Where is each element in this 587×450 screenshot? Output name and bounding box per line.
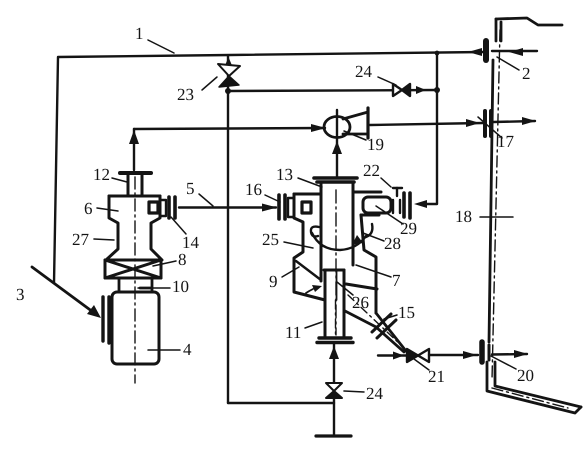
wire bottom drain line bbox=[333, 344, 335, 436]
flow arrow up into ejector bbox=[332, 141, 342, 154]
svg-text:5: 5 bbox=[186, 179, 195, 198]
flow arrow on line1 bbox=[468, 48, 482, 56]
internal flow arrow left bbox=[306, 285, 322, 293]
svg-text:17: 17 bbox=[497, 132, 515, 151]
drain pipe 15 walls bbox=[345, 311, 406, 352]
flange 2 bar bbox=[483, 41, 489, 60]
pipe 18 bottom diagonal outlet bbox=[487, 362, 581, 413]
svg-text:27: 27 bbox=[72, 230, 90, 249]
central cylinder walls bbox=[321, 184, 353, 281]
label 28 bbox=[363, 233, 401, 253]
coupling box 8 with X bbox=[105, 260, 161, 278]
wire riser to port29 bbox=[424, 53, 437, 204]
svg-text:1: 1 bbox=[135, 24, 144, 43]
valve 23 bbox=[218, 64, 240, 87]
bottom flange of cylinder 11 bbox=[317, 338, 353, 343]
node junction at valve23 bottom bbox=[225, 88, 231, 94]
flow arrow up on riser bbox=[129, 130, 139, 144]
pipe 18 centerline bbox=[492, 30, 568, 408]
label 12 bbox=[93, 165, 127, 184]
label 17 bbox=[478, 117, 515, 151]
label 29 bbox=[376, 206, 417, 238]
cylinder 4 bbox=[112, 292, 159, 364]
flow arrow before flange 17 bbox=[466, 119, 480, 127]
svg-text:26: 26 bbox=[352, 293, 369, 312]
central device top flange 13 bbox=[314, 178, 357, 182]
flow arrow before valve 21 bbox=[393, 352, 404, 360]
flow arrow on line 3 bbox=[87, 305, 101, 318]
svg-text:24: 24 bbox=[355, 62, 373, 81]
left device port hole square bbox=[149, 202, 158, 213]
flow arrow before flange 20 bbox=[463, 351, 477, 359]
inner cylinder centerline bbox=[335, 300, 337, 334]
label 24 bottom bbox=[344, 384, 384, 403]
wire line1 recirculation header bbox=[54, 52, 484, 283]
label 2 bbox=[497, 57, 531, 83]
ejector 19 cone and bar bbox=[343, 108, 368, 138]
label 10 bbox=[138, 277, 189, 296]
label 3 bbox=[16, 285, 25, 304]
internal cone line left bbox=[296, 261, 321, 280]
label 25 bbox=[262, 230, 313, 249]
left device flange 14 bars bbox=[169, 197, 175, 218]
wire line from riser to ejector bbox=[134, 128, 325, 129]
inner cylinder 11 walls bbox=[324, 270, 344, 336]
svg-text:18: 18 bbox=[455, 207, 472, 226]
flange 20 bar bbox=[479, 342, 485, 362]
label 13 bbox=[276, 165, 322, 187]
svg-text:2: 2 bbox=[522, 64, 531, 83]
svg-text:10: 10 bbox=[172, 277, 189, 296]
label 7 bbox=[356, 265, 401, 290]
svg-text:6: 6 bbox=[84, 199, 93, 218]
flow arrow up to line1 bbox=[224, 57, 233, 68]
left device: pipe 12 walls bbox=[128, 175, 142, 196]
right port small piece bbox=[393, 200, 400, 213]
label 20 bbox=[491, 356, 534, 385]
ejector 19 circle bbox=[324, 117, 350, 138]
central device body left outline 9 bbox=[294, 194, 325, 300]
svg-text:16: 16 bbox=[245, 180, 262, 199]
wire outlet after flange 17 bbox=[493, 121, 535, 122]
label 21 bbox=[414, 359, 445, 386]
label 9 bbox=[269, 267, 299, 291]
flange 20 second bar bbox=[488, 345, 491, 360]
flow arrow up into flange 11 bbox=[329, 346, 339, 359]
wire out of flange 20 bbox=[492, 353, 527, 356]
svg-text:23: 23 bbox=[177, 85, 194, 104]
flow arrow into port 29 bbox=[414, 200, 427, 208]
wire bypass line y90 bbox=[228, 90, 437, 91]
flow arrow after valve 24 bbox=[416, 86, 426, 94]
wire bottom connection from valve23 branch bbox=[228, 402, 334, 404]
cylinder 4 side flange bars bbox=[103, 297, 109, 343]
label 22 bbox=[363, 161, 391, 187]
svg-text:15: 15 bbox=[398, 303, 415, 322]
label 5 bbox=[186, 179, 213, 206]
svg-text:3: 3 bbox=[16, 285, 25, 304]
left device centerline bbox=[134, 177, 136, 383]
svg-text:8: 8 bbox=[178, 250, 187, 269]
flow arrow into ejector bbox=[311, 124, 326, 132]
central device left port fitting bbox=[288, 198, 294, 217]
wire ejector suction riser bbox=[336, 137, 338, 177]
label 8 bbox=[153, 250, 187, 269]
flow arrow out of 20 bbox=[514, 350, 528, 358]
svg-text:11: 11 bbox=[285, 323, 301, 342]
label 27 bbox=[72, 230, 114, 249]
svg-text:21: 21 bbox=[428, 367, 445, 386]
wire valve23 branch vertical bbox=[227, 56, 229, 403]
right port stub 22 bbox=[393, 188, 402, 196]
wire ejector outlet to flange 17 bbox=[370, 123, 483, 125]
flow arrow on line 5 bbox=[262, 204, 277, 212]
wire suction line 3 bbox=[32, 267, 93, 312]
flow arrow out of 17 bbox=[522, 117, 536, 125]
label 15 bbox=[384, 303, 415, 322]
left device body 6/27 outline bbox=[106, 196, 162, 260]
label 19 bbox=[344, 131, 384, 154]
svg-text:9: 9 bbox=[269, 272, 278, 291]
central device centerline bbox=[335, 190, 337, 335]
node junction bypass/riser bbox=[434, 87, 440, 93]
svg-text:20: 20 bbox=[517, 366, 534, 385]
ejector stub above bbox=[336, 110, 338, 137]
svg-text:13: 13 bbox=[276, 165, 293, 184]
wire riser from left device with arrow bbox=[133, 129, 135, 170]
wire into valve 21 bbox=[378, 354, 407, 356]
drain end bar bbox=[316, 434, 351, 437]
svg-text:29: 29 bbox=[400, 219, 417, 238]
svg-text:28: 28 bbox=[384, 234, 401, 253]
internal flow arrow right dark bbox=[352, 235, 363, 245]
left device: flange 12 bbox=[120, 171, 151, 175]
wire entry above flange 2 bbox=[492, 50, 537, 52]
inner cylinder 11 inner line bbox=[336, 271, 338, 300]
central device body right outline 7 bbox=[346, 192, 381, 313]
svg-text:19: 19 bbox=[367, 135, 384, 154]
wire valve21 to flange 20 bbox=[429, 354, 478, 356]
pipe 15 flange slashes bbox=[372, 314, 396, 338]
water curtain arc 25 bbox=[311, 224, 373, 250]
wire line 5 bbox=[179, 206, 276, 208]
valve 24 top bbox=[393, 84, 410, 96]
label 16 bbox=[245, 180, 280, 202]
label 23 bbox=[177, 77, 217, 104]
left device port 14 fitting bbox=[160, 200, 166, 216]
label 18 bbox=[455, 207, 513, 226]
central device left port hole square bbox=[302, 202, 311, 213]
svg-text:25: 25 bbox=[262, 230, 279, 249]
svg-text:22: 22 bbox=[363, 161, 380, 180]
label 11 bbox=[285, 322, 322, 342]
label 4 bbox=[148, 340, 192, 359]
pipe 15 centerline bbox=[348, 295, 403, 347]
svg-text:7: 7 bbox=[392, 271, 401, 290]
central device flange 16 bars bbox=[279, 195, 285, 219]
flow arrow into flange 2 bbox=[509, 48, 523, 56]
main water pipe 18 wall bbox=[489, 18, 562, 342]
label 1 bbox=[135, 24, 174, 53]
flange 17 bars bbox=[485, 111, 491, 136]
flange 29 bars bbox=[404, 193, 410, 218]
svg-text:12: 12 bbox=[93, 165, 110, 184]
svg-text:4: 4 bbox=[183, 340, 192, 359]
label 14 bbox=[171, 217, 200, 252]
svg-text:24: 24 bbox=[366, 384, 384, 403]
valve 24 bottom bbox=[326, 383, 342, 398]
label 24 top bbox=[355, 62, 396, 85]
node junction line1/riser bbox=[435, 51, 440, 56]
right port fitting 22/29 bbox=[363, 197, 391, 213]
valve 21 bbox=[407, 349, 429, 362]
label 26 bbox=[337, 282, 369, 312]
neck 10 bbox=[119, 278, 152, 291]
label 6 bbox=[84, 199, 118, 218]
